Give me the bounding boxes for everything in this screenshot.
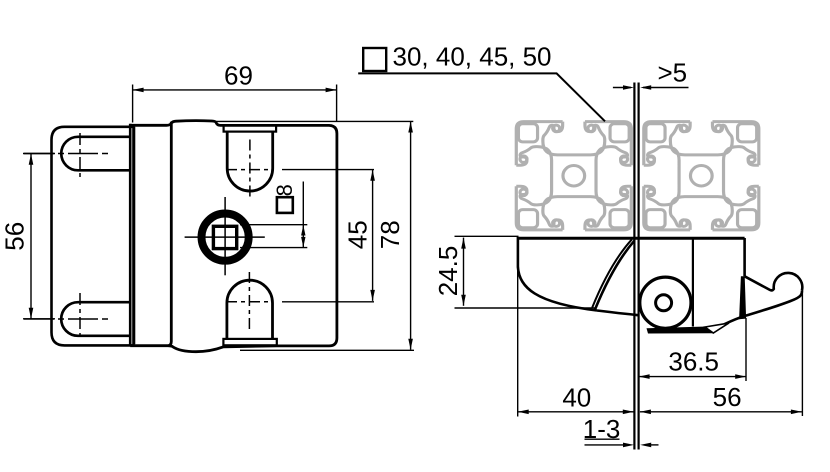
lower keyhole slot: [227, 280, 273, 339]
svg-text:40: 40: [562, 383, 591, 413]
upper keyhole collar: [224, 125, 277, 131]
side body top edge: [518, 237, 745, 240]
side body left edge: [517, 237, 520, 267]
svg-text:>5: >5: [658, 57, 688, 87]
dimension 40: [518, 240, 634, 417]
body left edge (band): [129, 124, 132, 347]
svg-text:45: 45: [343, 220, 373, 249]
centreline upper keyhole: [249, 140, 251, 201]
centreline lower keyhole: [248, 272, 250, 333]
aluminium profile right: [644, 122, 759, 230]
dimension 56 (hook reach): [640, 291, 803, 416]
plate slot top-left: [61, 137, 131, 171]
dimension 36.5: [639, 318, 747, 381]
bottom curve right, to hook: [724, 291, 802, 325]
lower keyhole foot: [223, 339, 276, 345]
svg-text:56: 56: [0, 222, 29, 251]
dimension 24.5: [455, 236, 597, 308]
svg-text:69: 69: [224, 61, 253, 91]
dimension 56 (plate slots): [23, 154, 55, 319]
centreline plate slot bottom: [24, 318, 108, 320]
dimension 69: [133, 85, 337, 123]
svg-text:56: 56: [713, 382, 742, 412]
svg-text:24.5: 24.5: [433, 246, 463, 297]
bottom curve left of roller: [597, 311, 639, 316]
svg-text:36.5: 36.5: [668, 346, 719, 376]
dimension 78 (body height): [216, 121, 414, 350]
lever front arc inner: [592, 239, 632, 307]
hook notch and knob: [745, 273, 803, 291]
mounting plate outline: [52, 127, 134, 346]
aluminium profile left: [516, 122, 631, 230]
plate slot bottom-left: [61, 302, 131, 336]
roller: [640, 277, 691, 328]
lever front arc outer: [595, 241, 634, 310]
plate right edge (band): [133, 127, 136, 344]
svg-text:1-3: 1-3: [583, 414, 621, 444]
svg-text:78: 78: [375, 220, 405, 249]
clamp bar taper wedge: [705, 323, 729, 333]
dimension 45 (keyhole centres): [282, 170, 374, 302]
latch tongue blade: [634, 83, 638, 450]
callout: profile sizes: [363, 48, 386, 71]
dimension >5 (gap): [613, 87, 689, 89]
body right edge: [743, 238, 746, 276]
cam ring: [202, 214, 249, 261]
roller bracket edge: [692, 238, 694, 326]
upper keyhole slot: [227, 132, 273, 191]
dimension square 8 (drive hole): [240, 182, 307, 248]
body outline: [130, 121, 337, 352]
crosshair cam ring: [185, 236, 265, 238]
dimension 1-3 (panel gap): [585, 439, 659, 445]
svg-text:8: 8: [272, 184, 297, 196]
square drive hole: [213, 226, 236, 248]
roller pin: [656, 295, 672, 311]
svg-text:30, 40, 45, 50: 30, 40, 45, 50: [393, 41, 552, 71]
centrelines, front view: [24, 133, 274, 339]
body inner edge: [169, 122, 172, 346]
centreline plate slot top: [24, 153, 108, 155]
clamp bar under roller: [647, 326, 714, 333]
lever scoop curve: [518, 267, 597, 311]
hook root edge: [739, 276, 746, 319]
